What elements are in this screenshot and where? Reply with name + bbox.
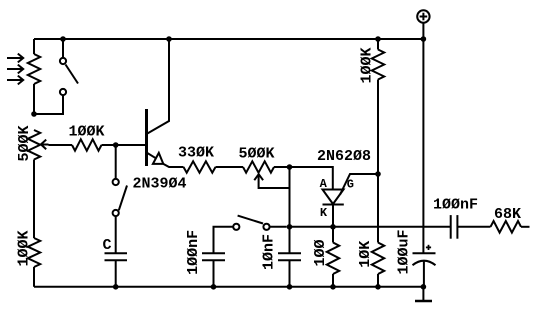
wire cathode node to 100 [332, 227, 334, 243]
resistor 10K [372, 243, 384, 275]
node LDR/switch junction [31, 111, 37, 117]
SCR Q2 triangle [323, 190, 344, 205]
wire 100 to ground rail [332, 274, 334, 287]
svg-text:G: G [347, 178, 354, 192]
svg-text:1ØK: 1ØK [357, 241, 374, 268]
node 100 ground [330, 284, 336, 290]
switch S3 right contact [263, 224, 269, 230]
svg-text:68K: 68K [494, 206, 521, 223]
transistor Q1 emitter arrow [153, 153, 163, 164]
resistor 100K left lower [28, 238, 40, 267]
capacitor 10nF [278, 252, 301, 254]
switch S1 top contact [60, 58, 66, 64]
SCR gate wire [340, 174, 378, 195]
switch S2 blade [119, 186, 127, 211]
wire 100K to gate node [377, 80, 379, 175]
svg-text:2N39Ø4: 2N39Ø4 [132, 175, 186, 192]
svg-text:A: A [320, 177, 328, 191]
wire 500K to node [274, 166, 290, 168]
wire cathode line [290, 226, 451, 228]
switch S1 blade [66, 65, 79, 84]
switch S2 bottom contact [113, 210, 119, 216]
wire to 10nF cap [289, 227, 291, 253]
switch S3 blade [238, 216, 263, 224]
wire left rail mid [33, 160, 35, 239]
wire SCR cathode down [332, 205, 334, 227]
node switch/10nF junction [287, 224, 293, 230]
wire S2 to cap C [115, 216, 117, 253]
resistor 330K [184, 161, 216, 172]
wire 100uF to ground rail [423, 262, 425, 287]
photoresistor LDR [28, 54, 40, 84]
node base/switch junction [113, 142, 119, 148]
switch S2 top contact [113, 179, 119, 185]
node 100nF ground [211, 284, 217, 290]
svg-text:1ØØnF: 1ØØnF [185, 230, 202, 275]
transistor Q1 emitter [147, 153, 157, 159]
potentiometer 500K left [28, 130, 40, 160]
resistor 68K [491, 221, 522, 233]
supply plus terminal [417, 10, 429, 22]
pot wiper arrow left [41, 144, 48, 146]
wire top supply rail [34, 38, 423, 40]
capacitor C [105, 252, 128, 254]
pot wiper arrow up [254, 174, 263, 180]
node 100uF ground [421, 284, 427, 290]
LDR light arrows [7, 54, 23, 85]
node cap C ground [113, 284, 119, 290]
svg-text:1ØØK: 1ØØK [68, 123, 104, 140]
wire 100nF to ground rail [213, 260, 215, 287]
wire S1 bottom to node [34, 95, 63, 114]
svg-text:2N62Ø8: 2N62Ø8 [317, 148, 371, 165]
svg-text:1ØØK: 1ØØK [358, 47, 375, 83]
capacitor 100nF output [450, 215, 452, 239]
transistor Q1 collector [147, 39, 170, 134]
svg-text:1ØØ: 1ØØ [312, 239, 329, 266]
wire gate node to 10K [377, 174, 379, 243]
switch S3 left contact [233, 224, 239, 230]
capacitor 100uF plus sign [426, 246, 431, 248]
wire 10K to ground rail [377, 274, 379, 287]
node SCR cathode [330, 224, 336, 230]
svg-text:C: C [102, 237, 111, 254]
wire pot to 100K [49, 144, 73, 146]
resistor 100K base [72, 139, 102, 150]
node S1 top [60, 36, 66, 42]
svg-text:5ØØK: 5ØØK [16, 125, 33, 161]
svg-text:1ØØK: 1ØØK [15, 230, 32, 266]
node 10nF ground [287, 284, 293, 290]
node gate junction [375, 171, 381, 177]
wire 68K out [521, 226, 530, 228]
wire node to S2 [115, 145, 117, 179]
ground [422, 287, 424, 301]
transistor Q1 base bar [145, 109, 148, 166]
svg-text:33ØK: 33ØK [178, 144, 214, 161]
node 100K top [375, 36, 381, 42]
potentiometer 500K [243, 161, 274, 172]
wire supply column [422, 39, 424, 253]
node 10K ground [375, 284, 381, 290]
SCR cathode bar [323, 204, 344, 206]
wire left rail upper [33, 39, 35, 54]
wire left rail bottom [33, 267, 35, 287]
wire 100nF out to 68K [457, 226, 490, 228]
wire cap C to ground rail [115, 260, 117, 287]
wire 330K to 500K [216, 166, 244, 168]
capacitor 100nF mid [202, 252, 225, 254]
wire SCR anode [290, 167, 333, 190]
svg-text:1ØnF: 1ØnF [261, 234, 278, 270]
wire S3 to node [270, 226, 287, 228]
wire 100K to base [102, 144, 147, 146]
wire emitter out [163, 164, 183, 167]
capacitor 100uF bottom plate [413, 261, 436, 266]
node collector top rail [166, 36, 172, 42]
wire LDR bottom to node [33, 84, 35, 114]
switch S1 bottom contact [60, 89, 66, 95]
svg-text:1ØØnF: 1ØØnF [433, 196, 478, 213]
wire S1 from top rail [62, 39, 64, 58]
wire 100K top [377, 39, 379, 50]
node 500K junction [287, 164, 293, 170]
svg-text:K: K [320, 206, 328, 220]
resistor 100K right [372, 50, 384, 80]
wire bottom ground rail [34, 286, 423, 288]
capacitor 100uF top plate [413, 252, 436, 254]
node supply rail [421, 36, 427, 42]
wire supply to rail [422, 23, 424, 39]
wire node down to switch node [289, 167, 291, 227]
svg-text:5ØØK: 5ØØK [238, 145, 274, 162]
wire 10nF to ground rail [289, 260, 291, 287]
resistor 100 [327, 243, 339, 275]
svg-text:1ØØuF: 1ØØuF [395, 229, 412, 274]
wire 100nF up [214, 227, 234, 253]
